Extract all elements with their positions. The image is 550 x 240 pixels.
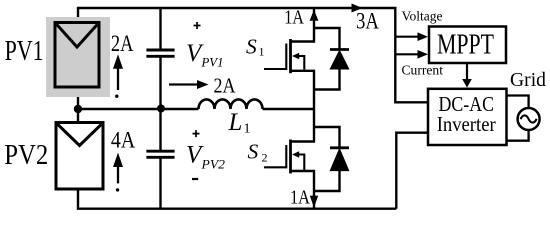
plus sign VPV2 xyxy=(193,130,200,137)
diode D1 xyxy=(330,50,349,70)
MPPT box xyxy=(429,27,506,64)
PV1 panel xyxy=(55,23,99,88)
svg-text:Current: Current xyxy=(402,62,444,77)
svg-text:PV1: PV1 xyxy=(5,36,44,67)
wire inverter to grid bottom xyxy=(507,130,529,141)
wire S1 source to switch node to S2 drain xyxy=(291,71,315,142)
AC source grid symbol xyxy=(518,108,540,130)
plus sign VPV1 xyxy=(194,22,201,29)
wire S1 drain to top rail xyxy=(291,8,315,42)
arrow 1A S2 source current xyxy=(290,186,318,208)
wire D2 anode to bottom xyxy=(314,171,340,191)
inductor L1 xyxy=(199,99,263,109)
svg-text:1: 1 xyxy=(244,122,251,137)
wire inverter to grid top xyxy=(507,96,529,108)
arrow 4A PV2 current xyxy=(111,128,136,192)
wire mid rail right of inductor xyxy=(263,108,315,110)
wire PV1 bottom to PV2 top xyxy=(77,87,79,123)
arrow MPPT to inverter xyxy=(462,63,472,88)
svg-text:1: 1 xyxy=(259,45,265,59)
svg-text:PV2: PV2 xyxy=(4,140,48,171)
capacitor C1 leads xyxy=(159,8,161,109)
svg-text:L: L xyxy=(228,109,243,136)
DC-AC inverter box xyxy=(428,89,507,145)
svg-text:PV2: PV2 xyxy=(200,156,225,171)
arrow current sense xyxy=(395,50,428,59)
arrow voltage sense xyxy=(395,32,428,41)
svg-text:2: 2 xyxy=(262,150,268,164)
PV1 highlight xyxy=(46,17,110,97)
PV1 panel chevron xyxy=(57,24,98,47)
capacitor C2 leads xyxy=(159,109,161,209)
svg-text:S: S xyxy=(246,35,257,59)
svg-text:3A: 3A xyxy=(356,8,379,33)
svg-text:Grid: Grid xyxy=(510,69,546,91)
svg-text:2A: 2A xyxy=(111,31,134,56)
PV2 panel xyxy=(56,123,103,190)
wire PV1 top lead xyxy=(77,7,79,23)
transistor S2 (MOSFET) xyxy=(264,140,304,174)
PV2 panel chevron xyxy=(58,124,102,145)
node junction dot capacitor mid xyxy=(157,105,165,113)
transistor S1 (MOSFET) xyxy=(264,39,304,73)
arrow 2A inductor current xyxy=(169,74,236,98)
wire D1 anode to switch node xyxy=(314,69,340,90)
wire inverter negative return xyxy=(396,133,428,209)
svg-text:Inverter: Inverter xyxy=(437,112,496,136)
wire D2 cathode branch xyxy=(314,127,340,148)
svg-text:PV1: PV1 xyxy=(201,55,224,70)
capacitor C2 plates xyxy=(146,151,174,157)
svg-text:Voltage: Voltage xyxy=(402,9,443,24)
svg-text:1A: 1A xyxy=(284,6,304,28)
svg-text:2A: 2A xyxy=(214,74,237,98)
arrow 1A S1 drain current xyxy=(284,6,318,28)
minus sign VPV2 xyxy=(192,178,198,180)
wire D1 cathode branch xyxy=(314,28,340,50)
wire mid rail left of inductor xyxy=(78,108,199,110)
svg-text:S: S xyxy=(248,140,259,164)
node junction dot PV1/PV2 xyxy=(74,105,82,113)
capacitor C1 plates xyxy=(146,50,174,56)
svg-text:1A: 1A xyxy=(290,186,310,208)
arrow 2A PV1 current xyxy=(111,31,134,98)
svg-text:4A: 4A xyxy=(111,128,136,153)
diode D2 xyxy=(330,148,349,171)
arrow 3A output current xyxy=(352,4,380,34)
wire PV2 bottom lead and bottom rail xyxy=(78,189,396,209)
wire right positive drop into inverter xyxy=(395,8,428,102)
svg-text:MPPT: MPPT xyxy=(437,29,494,60)
wire top rail xyxy=(78,7,397,9)
wire S2 source to bottom rail xyxy=(291,171,315,208)
